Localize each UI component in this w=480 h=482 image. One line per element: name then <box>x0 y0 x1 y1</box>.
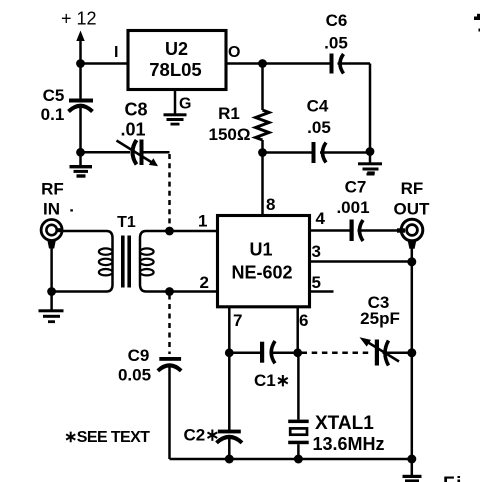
ground bottom right <box>403 459 422 482</box>
node P7 junction pin7/C1/C2 <box>225 348 234 357</box>
capacitor C1 <box>229 341 297 363</box>
transformer T1 label <box>117 214 136 231</box>
pin label 3 <box>312 242 321 261</box>
pin label 6 <box>299 311 308 330</box>
wire U1 pin 3 to RF OUT line <box>310 260 412 263</box>
pin label I (U2 input) <box>114 44 118 61</box>
svg-text:I: I <box>114 44 118 61</box>
ground below RF IN <box>39 292 64 324</box>
pin label 1 <box>198 212 207 231</box>
node E junction C5/ground/C8 <box>76 148 85 157</box>
wire node E to C8 <box>81 151 131 154</box>
node P3 junction pin3/RF OUT <box>407 257 416 266</box>
RF OUT labels <box>394 179 431 218</box>
dashed wire pin6 to C3 <box>302 352 373 355</box>
svg-text:6: 6 <box>299 311 308 330</box>
node G junction on pin2 wire <box>165 287 174 296</box>
pin label 7 <box>233 311 242 330</box>
node C3R junction C3/RF OUT line <box>407 348 416 357</box>
node +12 supply label <box>61 9 97 29</box>
bottom rail wire <box>170 458 412 461</box>
node P6 junction pin6/C1/C3 <box>293 348 302 357</box>
crystal XTAL1 <box>288 353 309 459</box>
svg-text:13.6MHz: 13.6MHz <box>313 434 385 454</box>
wire U2 output to node B <box>226 62 263 65</box>
svg-text:.05: .05 <box>307 118 331 137</box>
wire U1 pin 7 down <box>228 307 231 353</box>
capacitor C6 <box>263 54 371 74</box>
wire +12 node to U2 input <box>81 62 129 65</box>
dashed wire node G down to C9 <box>168 295 171 355</box>
node A junction +12/C5/U2 <box>76 59 85 68</box>
svg-text:U2: U2 <box>165 39 188 59</box>
RF OUT connector J2 <box>401 219 423 262</box>
svg-text:7: 7 <box>233 311 242 330</box>
svg-text:U1: U1 <box>249 240 272 260</box>
svg-text:8: 8 <box>266 195 275 214</box>
svg-text:R1: R1 <box>218 104 240 123</box>
svg-text:XTAL1: XTAL1 <box>315 413 374 434</box>
svg-text:G: G <box>179 96 191 113</box>
svg-text:NE-602: NE-602 <box>231 263 292 283</box>
pin label 2 <box>200 273 209 292</box>
pin label G and wire (U2 ground) <box>175 90 191 115</box>
IC U1 NE-602 box <box>218 216 310 307</box>
trimmer capacitor C8 <box>117 140 170 167</box>
wire U1 pin 6 down <box>296 307 299 353</box>
svg-text:IN: IN <box>43 200 60 219</box>
svg-text:C5: C5 <box>43 86 65 105</box>
svg-text:O: O <box>228 44 240 61</box>
wire C3 node down to bottom rail <box>411 353 414 459</box>
node rail XTAL <box>294 455 303 464</box>
svg-text:.01: .01 <box>120 120 145 140</box>
wire RF IN to T1 primary <box>62 230 107 233</box>
svg-text:78L05: 78L05 <box>149 59 201 80</box>
page edge mark top right <box>474 14 480 32</box>
wire node D to U1 pin 8 <box>261 153 264 216</box>
transformer T1 primary winding <box>52 231 113 292</box>
capacitor C9 <box>158 357 181 459</box>
svg-text:1: 1 <box>198 212 207 231</box>
svg-text:3: 3 <box>312 242 321 261</box>
svg-text:2: 2 <box>200 273 209 292</box>
svg-text:.001: .001 <box>336 198 369 217</box>
wire C6 down to ground node C <box>369 64 372 152</box>
svg-text:C4: C4 <box>307 97 329 116</box>
svg-text:RF: RF <box>41 180 64 199</box>
node H junction RF IN ground <box>47 287 56 296</box>
pin 5 stub <box>310 290 334 293</box>
svg-text:4: 4 <box>316 209 326 228</box>
pin label O (U2 output) <box>228 44 240 61</box>
svg-text:Fi: Fi <box>443 474 463 482</box>
+12 arrow <box>76 31 84 64</box>
svg-text:C1∗: C1∗ <box>254 371 290 390</box>
svg-text:5: 5 <box>312 273 321 292</box>
RF IN labels <box>41 180 73 219</box>
node C junction C6/C4/ground <box>366 147 375 156</box>
svg-text:∗SEE TEXT: ∗SEE TEXT <box>64 429 150 446</box>
node rail C2 <box>225 455 234 464</box>
transformer T1 secondary winding <box>140 231 218 292</box>
svg-text:C6: C6 <box>326 11 348 30</box>
ground below C5 <box>70 152 93 177</box>
capacitor C4 <box>263 142 371 163</box>
pin label 4 <box>316 209 326 228</box>
node F junction on pin1 wire <box>165 227 174 236</box>
svg-text:0.05: 0.05 <box>118 366 151 385</box>
svg-text:150Ω: 150Ω <box>209 125 251 144</box>
svg-text:OUT: OUT <box>394 199 431 218</box>
svg-text:C7: C7 <box>345 178 367 197</box>
transformer T1 core <box>121 236 131 288</box>
figure caption fragment Fi <box>443 474 463 482</box>
svg-text:+ 12: + 12 <box>61 9 97 29</box>
pin label 5 <box>312 273 321 292</box>
svg-text:C8: C8 <box>124 100 147 120</box>
capacitor C2 <box>217 353 243 459</box>
ground below U2 <box>164 113 187 125</box>
node rail right <box>407 455 416 464</box>
svg-text:C9: C9 <box>128 346 150 365</box>
see text note <box>64 429 150 446</box>
resistor R1 <box>256 64 270 153</box>
svg-text:C2∗: C2∗ <box>184 426 220 445</box>
svg-text:RF: RF <box>401 179 424 198</box>
svg-text:0.1: 0.1 <box>41 105 65 124</box>
capacitor C7 and pin 4 wire <box>310 220 406 242</box>
RF IN connector J1 <box>41 220 63 292</box>
trimmer capacitor C3 <box>360 337 412 365</box>
pin label 8 <box>266 195 275 214</box>
svg-text:T1: T1 <box>117 214 136 231</box>
ground below node C <box>358 152 382 176</box>
svg-text:25pF: 25pF <box>360 309 400 328</box>
regulator U2 box <box>128 31 226 90</box>
node B junction U2 out/C6/R1 <box>258 59 267 68</box>
node D junction R1/C4/pin8 <box>258 148 267 157</box>
wire RF OUT line down to C3 node <box>411 262 414 353</box>
dashed wire C8 to node F <box>168 154 171 229</box>
svg-text:.05: .05 <box>324 34 348 53</box>
capacitor C5 <box>69 64 94 153</box>
